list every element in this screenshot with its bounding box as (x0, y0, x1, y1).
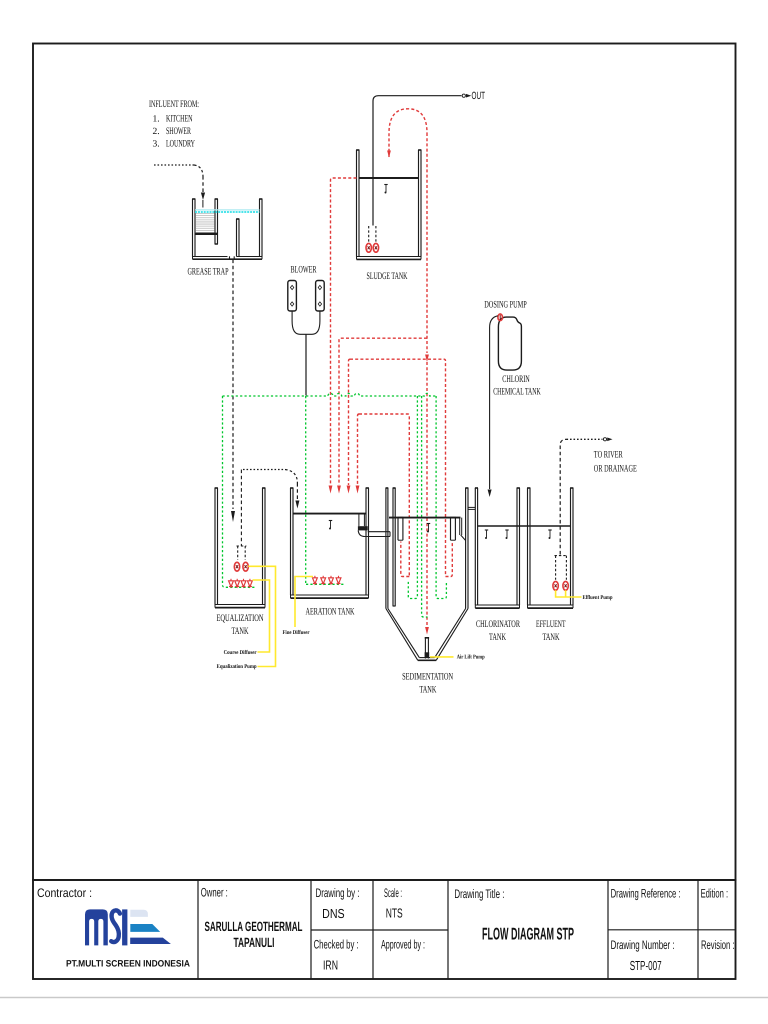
svg-text:CHLORIN: CHLORIN (502, 374, 530, 385)
svg-text:DNS: DNS (322, 906, 345, 921)
svg-text:Fine Diffuser: Fine Diffuser (283, 629, 310, 636)
svg-text:Drawing by :: Drawing by : (316, 886, 360, 900)
svg-text:SLUDGE TANK: SLUDGE TANK (367, 271, 408, 282)
svg-text:TANK: TANK (232, 626, 249, 637)
svg-text:SHOWER: SHOWER (166, 126, 191, 137)
svg-text:AERATION TANK: AERATION TANK (306, 606, 355, 617)
svg-text:Drawing Reference :: Drawing Reference : (611, 887, 681, 901)
svg-text:OR DRAINAGE: OR DRAINAGE (594, 463, 637, 474)
svg-text:Drawing Title :: Drawing Title : (454, 887, 504, 901)
svg-text:INFLUENT FROM:: INFLUENT FROM: (149, 99, 199, 110)
svg-text:Effluent Pump: Effluent Pump (583, 594, 613, 601)
svg-text:Air Lift Pump: Air Lift Pump (457, 654, 485, 661)
svg-text:EFFLUENT: EFFLUENT (536, 619, 566, 630)
svg-text:TAPANULI: TAPANULI (234, 935, 275, 950)
svg-text:Owner :: Owner : (201, 886, 228, 900)
svg-text:TANK: TANK (489, 632, 506, 643)
svg-text:IRN: IRN (323, 957, 338, 972)
svg-text:FLOW DIAGRAM STP: FLOW DIAGRAM STP (482, 925, 574, 944)
svg-text:Edition :: Edition : (701, 887, 729, 901)
svg-text:SARULLA GEOTHERMAL: SARULLA GEOTHERMAL (205, 919, 303, 934)
svg-text:Scale :: Scale : (384, 886, 402, 900)
svg-text:DOSING PUMP: DOSING PUMP (484, 300, 527, 311)
svg-text:Equalization Pump: Equalization Pump (217, 663, 257, 670)
svg-text:Checked by :: Checked by : (314, 938, 359, 952)
svg-text:CHLORINATOR: CHLORINATOR (476, 619, 520, 630)
svg-text:Drawing Number :: Drawing Number : (611, 938, 675, 952)
svg-text:2.: 2. (153, 127, 160, 137)
svg-text:3.: 3. (153, 140, 160, 150)
svg-text:CHEMICAL TANK: CHEMICAL TANK (493, 387, 541, 398)
svg-text:Contractor :: Contractor : (37, 886, 92, 900)
svg-text:TO RIVER: TO RIVER (594, 450, 623, 461)
svg-text:STP-007: STP-007 (630, 958, 662, 973)
svg-text:LOUNDRY: LOUNDRY (166, 139, 195, 150)
svg-text:TANK: TANK (419, 684, 436, 695)
svg-text:KITCHEN: KITCHEN (166, 114, 193, 125)
svg-text:Approved by :: Approved by : (381, 938, 425, 952)
svg-text:OUT: OUT (472, 90, 486, 102)
svg-text:1.: 1. (153, 115, 160, 125)
svg-text:SEDIMENTATION: SEDIMENTATION (402, 672, 453, 683)
svg-text:BLOWER: BLOWER (291, 265, 317, 276)
svg-text:TANK: TANK (543, 632, 560, 643)
svg-text:Revision :: Revision : (701, 938, 735, 952)
svg-text:NTS: NTS (386, 906, 403, 921)
svg-text:Course Diffuser: Course Diffuser (224, 649, 257, 656)
svg-text:PT.MULTI SCREEN INDONESIA: PT.MULTI SCREEN INDONESIA (66, 959, 190, 969)
svg-text:EQUALIZATION: EQUALIZATION (217, 613, 264, 624)
svg-text:GREASE TRAP: GREASE TRAP (188, 267, 229, 278)
